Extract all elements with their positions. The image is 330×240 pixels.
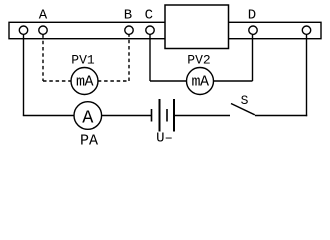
wire dashed drop node A	[42, 34, 44, 81]
terminal B	[125, 26, 133, 34]
battery plate short 1	[151, 109, 153, 122]
svg-text:D: D	[248, 8, 256, 24]
wire drop node C	[149, 34, 151, 81]
svg-text:mA: mA	[191, 74, 209, 91]
wire right drop from terminal 6	[306, 34, 308, 116]
slide-wire bar	[9, 22, 321, 38]
svg-text:S: S	[241, 93, 249, 108]
svg-text:PA: PA	[80, 133, 98, 150]
svg-text:mA: mA	[76, 74, 94, 91]
svg-text:A: A	[39, 8, 48, 24]
svg-text:A: A	[82, 107, 94, 128]
milliammeter PV1	[71, 68, 98, 95]
wire PV2 to D	[213, 80, 252, 82]
battery plate long 1	[159, 99, 161, 132]
wire PA to battery	[102, 115, 152, 117]
terminal 6	[302, 26, 310, 34]
svg-text:C: C	[145, 8, 153, 24]
terminal D	[249, 26, 257, 34]
wire dashed horizontal to PV1	[43, 80, 71, 82]
wire C to PV2	[150, 80, 187, 82]
terminal A	[39, 26, 47, 34]
battery plate short 2	[166, 109, 168, 122]
terminal 1	[19, 26, 27, 34]
wire left drop from terminal 1	[23, 34, 25, 115]
terminal C	[146, 26, 154, 34]
component box R	[165, 5, 229, 49]
svg-text:PV1: PV1	[71, 53, 95, 68]
wire bottom right	[255, 115, 307, 117]
wire rise node D	[252, 34, 254, 81]
svg-text:U–: U–	[156, 131, 173, 147]
svg-text:PV2: PV2	[187, 53, 210, 68]
wire bottom left	[23, 115, 74, 117]
wire battery to switch	[175, 115, 231, 117]
switch S blade	[231, 104, 255, 115]
wire dashed PV1 to node B	[98, 80, 129, 82]
wire dashed rise node B	[128, 34, 130, 81]
milliammeter PV2	[187, 68, 214, 95]
svg-text:B: B	[124, 8, 132, 24]
ammeter PA	[74, 102, 102, 130]
battery plate long 2	[173, 99, 175, 132]
